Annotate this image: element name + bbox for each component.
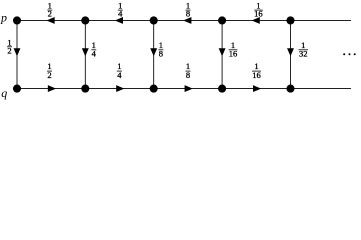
value label 1/4 bottom segment 2 <box>117 61 122 80</box>
wire top row <box>17 19 351 21</box>
svg-text:16: 16 <box>252 70 261 80</box>
wire vertical column 1 <box>16 20 18 88</box>
svg-text:2: 2 <box>7 46 11 56</box>
arrowhead vertical 2 (down) <box>82 48 89 56</box>
svg-text:8: 8 <box>159 48 163 58</box>
node q3 <box>150 85 158 93</box>
svg-text:2: 2 <box>47 70 51 80</box>
value label 1/2 vertical 1 <box>7 37 12 55</box>
svg-text:4: 4 <box>118 9 123 19</box>
node q1 <box>13 85 21 93</box>
arrowhead top segment 2 (left) <box>115 17 123 24</box>
node q4 <box>218 85 226 93</box>
value label 1/32 vertical 5 <box>299 40 308 59</box>
arrowhead vertical 4 (down) <box>219 48 226 56</box>
arrowhead bottom segment 1 (right) <box>48 85 56 92</box>
node p5 <box>286 16 294 24</box>
value label 1/2 bottom segment 1 <box>47 61 52 80</box>
svg-text:16: 16 <box>254 9 263 19</box>
svg-text:8: 8 <box>186 9 190 19</box>
wire vertical column 4 <box>221 20 223 88</box>
wire bottom row <box>17 88 351 90</box>
value label 1/2 top segment 1 <box>47 0 52 18</box>
value label 1/8 top segment 3 <box>186 0 191 18</box>
wire vertical column 3 <box>153 20 155 88</box>
value label 1/16 top segment 4 <box>254 0 263 18</box>
wire vertical column 2 <box>84 20 86 88</box>
arrowhead vertical 5 (down) <box>287 48 294 56</box>
arrowhead vertical 3 (down) <box>150 48 157 56</box>
arrowhead top segment 4 (left) <box>252 17 260 24</box>
wire vertical column 5 <box>290 20 292 88</box>
node p3 <box>150 16 158 24</box>
arrowhead bottom segment 2 (right) <box>116 85 124 92</box>
arrowhead bottom segment 4 (right) <box>253 85 261 92</box>
value label 1/4 top segment 2 <box>118 0 123 18</box>
arrowhead top segment 1 (left) <box>46 17 54 24</box>
svg-text:32: 32 <box>299 48 308 58</box>
value label 1/4 vertical 2 <box>91 40 96 59</box>
value label 1/8 vertical 3 <box>158 40 163 59</box>
svg-text:2: 2 <box>48 9 52 19</box>
ellipsis continuation dots <box>343 53 356 55</box>
node q2 <box>81 85 89 93</box>
svg-text:4: 4 <box>92 48 97 58</box>
svg-text:8: 8 <box>186 70 190 80</box>
arrowhead top segment 3 (left) <box>183 17 191 24</box>
node p2 <box>81 16 89 24</box>
node q5 <box>286 85 294 93</box>
svg-text:p: p <box>0 11 7 25</box>
value label 1/16 bottom segment 4 <box>252 61 261 80</box>
svg-text:16: 16 <box>229 48 238 58</box>
svg-text:4: 4 <box>117 70 122 80</box>
value label 1/8 bottom segment 3 <box>186 61 191 80</box>
arrowhead bottom segment 3 (right) <box>185 85 193 92</box>
value label 1/16 vertical 4 <box>229 40 238 59</box>
arrowhead vertical 1 (down) <box>14 48 21 56</box>
node p4 <box>218 16 226 24</box>
svg-text:q: q <box>1 86 7 100</box>
node p1 <box>13 16 21 24</box>
